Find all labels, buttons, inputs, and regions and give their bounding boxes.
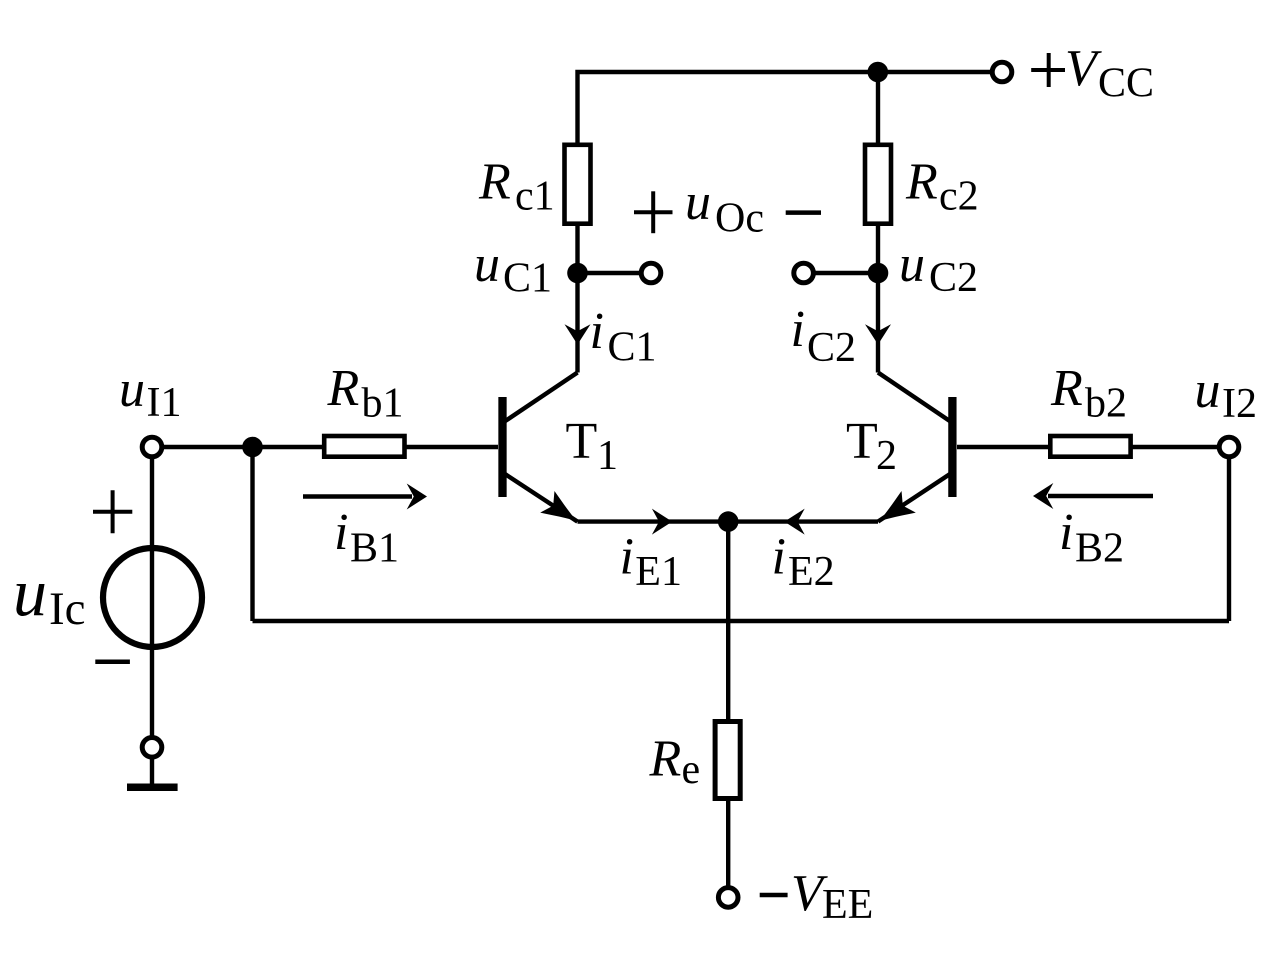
transistor Q1 T1 [503, 373, 585, 533]
svg-text:u: u [119, 361, 145, 418]
svg-text:u: u [474, 236, 500, 293]
svg-text:CC: CC [1098, 61, 1154, 107]
node uC1 [567, 263, 588, 284]
svg-text:R: R [1050, 360, 1083, 417]
svg-text:i: i [1059, 504, 1073, 561]
label Re [649, 730, 701, 793]
svg-text:u: u [899, 236, 925, 293]
terminal -VEE [718, 888, 738, 908]
arrow iB2 [1033, 483, 1153, 509]
svg-text:B2: B2 [1075, 525, 1124, 571]
node emitter [718, 511, 739, 532]
svg-text:V: V [1065, 40, 1102, 97]
wire Rc1 bottom to T1 collector [575, 226, 579, 373]
svg-text:B1: B1 [350, 525, 399, 571]
wire right drop uI2 to bottom rail [1227, 447, 1231, 621]
wire emitter rail [578, 519, 879, 523]
resistor Rb2 [1050, 436, 1130, 457]
terminal uOc plus [641, 263, 661, 283]
svg-text:i: i [791, 301, 805, 358]
label iE2 [772, 529, 835, 595]
label iB1 [334, 504, 399, 571]
wire uI1 to T1 base [152, 445, 498, 449]
wire left drop node to bottom rail [250, 447, 254, 621]
label T1 [566, 413, 619, 479]
label Rb1 [327, 360, 404, 427]
svg-text:R: R [905, 154, 938, 211]
label uI2 [1195, 362, 1258, 427]
arrow iB1 [303, 484, 427, 510]
wire Re to -VEE terminal [726, 801, 730, 897]
label iC2 [791, 301, 857, 371]
label uIc [13, 554, 86, 635]
svg-text:u: u [13, 554, 47, 630]
svg-text:Oc: Oc [715, 196, 764, 242]
svg-text:EE: EE [822, 882, 873, 928]
label iC1 [590, 303, 657, 371]
wire Rc2 bottom to T2 collector [876, 226, 880, 373]
svg-text:e: e [682, 747, 701, 793]
svg-text:R: R [327, 360, 360, 417]
svg-text:E1: E1 [635, 549, 682, 595]
wire top rail VCC [578, 72, 1003, 143]
svg-text:b2: b2 [1085, 381, 1127, 427]
label Rb2 [1050, 360, 1127, 427]
svg-text:C2: C2 [929, 255, 978, 301]
svg-text:E2: E2 [788, 549, 835, 595]
ground [127, 784, 178, 792]
svg-text:R: R [649, 730, 682, 787]
terminal uOc minus [794, 263, 814, 283]
svg-text:C2: C2 [807, 325, 856, 371]
label source plus [93, 490, 132, 533]
wire VCC drop to Rc2 [876, 72, 880, 143]
svg-text:u: u [1195, 362, 1221, 419]
label +VCC [1031, 40, 1154, 107]
wire uC1 stub [578, 271, 652, 275]
svg-text:C1: C1 [503, 256, 552, 302]
svg-text:i: i [772, 529, 786, 586]
svg-text:b1: b1 [362, 381, 404, 427]
wire uC2 stub [804, 271, 878, 275]
label -VEE [760, 865, 874, 928]
label iB2 [1059, 504, 1124, 571]
svg-text:I2: I2 [1222, 381, 1257, 427]
resistor Rb1 [324, 436, 404, 457]
arrow iE1 [652, 509, 672, 535]
label uOc [634, 174, 821, 241]
label T2 [846, 413, 897, 479]
arrow iC2 [865, 324, 891, 344]
wire bottom rail [253, 619, 1230, 623]
label uC2 [899, 236, 978, 301]
svg-text:1: 1 [597, 433, 618, 479]
svg-text:I1: I1 [147, 380, 182, 426]
svg-text:i: i [590, 303, 604, 360]
svg-text:R: R [478, 154, 511, 211]
label source minus [95, 660, 130, 665]
svg-text:Ic: Ic [49, 583, 86, 635]
svg-text:T: T [846, 413, 878, 470]
terminal uI2 [1219, 437, 1239, 457]
label uC1 [474, 236, 552, 302]
arrow iC1 [565, 324, 591, 344]
wire center drop to Re [726, 522, 730, 719]
svg-text:c2: c2 [939, 174, 979, 220]
terminal +VCC [992, 62, 1012, 82]
label iE1 [620, 529, 682, 595]
resistor Rc2 [865, 145, 891, 224]
wire source branch [150, 447, 154, 784]
arrow iE2 [784, 509, 804, 535]
terminal uI1 [142, 437, 162, 457]
svg-text:c1: c1 [515, 174, 555, 220]
svg-text:T: T [566, 413, 598, 470]
label uI1 [119, 361, 182, 426]
node uC2 [868, 263, 889, 284]
transistor Q2 T2 [872, 373, 953, 533]
node VCC [868, 62, 889, 83]
resistor Rc1 [565, 145, 591, 224]
resistor Re [715, 722, 740, 799]
terminal source gnd [142, 738, 162, 758]
svg-text:2: 2 [876, 433, 897, 479]
label Rc2 [905, 154, 979, 220]
wire T2 base to uI2 [957, 445, 1229, 449]
node uI1 branch [242, 437, 263, 458]
source V1 circle [103, 548, 202, 647]
svg-text:i: i [334, 504, 348, 561]
svg-text:u: u [685, 174, 711, 231]
label Rc1 [478, 154, 555, 220]
svg-text:C1: C1 [608, 325, 657, 371]
svg-text:i: i [620, 529, 634, 586]
